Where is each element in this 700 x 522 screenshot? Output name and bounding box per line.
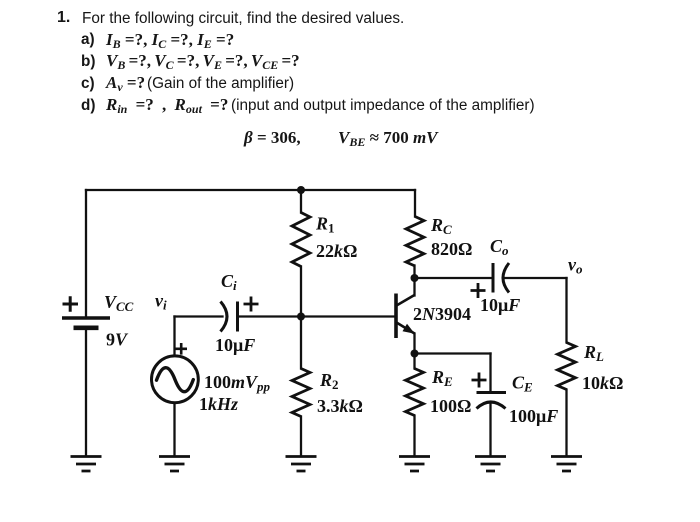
svg-text:100Ω: 100Ω bbox=[430, 396, 471, 416]
heading line 1 bbox=[57, 9, 70, 27]
svg-text:100μF: 100μF bbox=[509, 406, 558, 426]
resistor RE bbox=[406, 369, 424, 416]
wire vi corner down to source bbox=[173, 317, 175, 356]
wire RL bottom lead bbox=[565, 390, 567, 457]
wire R2 top lead bbox=[300, 317, 302, 369]
svg-text:RC: RC bbox=[430, 215, 452, 237]
ground battery bbox=[71, 457, 102, 472]
wire vo down lead bbox=[565, 278, 567, 343]
junction node R1-base bbox=[297, 313, 305, 321]
wire R1 top lead bbox=[300, 190, 302, 213]
ground RE bbox=[399, 457, 430, 472]
item a bbox=[81, 31, 95, 49]
svg-text:820Ω: 820Ω bbox=[431, 239, 472, 259]
ground R2 bbox=[286, 457, 317, 472]
wire Co to vo corner bbox=[505, 277, 567, 279]
beta line bbox=[244, 128, 301, 148]
wire battery top lead bbox=[85, 190, 87, 317]
svg-text:vi: vi bbox=[155, 291, 167, 313]
item b bbox=[81, 53, 95, 71]
svg-text:10μF: 10μF bbox=[215, 335, 255, 355]
wire battery bottom lead bbox=[85, 330, 87, 457]
svg-text:R2: R2 bbox=[319, 370, 339, 392]
junction node emitter bbox=[411, 350, 419, 358]
resistor R1 bbox=[292, 213, 310, 267]
svg-text:10kΩ: 10kΩ bbox=[582, 373, 623, 393]
wire collector node to Co bbox=[415, 277, 494, 279]
resistor RC bbox=[406, 217, 424, 267]
junction node collector bbox=[411, 274, 419, 282]
svg-text:RL: RL bbox=[583, 342, 604, 364]
wire RC top lead bbox=[414, 190, 416, 217]
svg-text:R1: R1 bbox=[315, 214, 335, 236]
source sine wave bbox=[157, 368, 194, 392]
transistor Q1 2N3904 bbox=[396, 294, 415, 339]
svg-text:Co: Co bbox=[490, 236, 509, 258]
wire emitter to CE bbox=[415, 352, 491, 354]
ground source bbox=[159, 457, 190, 472]
resistor RL bbox=[558, 343, 576, 390]
svg-text:vo: vo bbox=[568, 255, 583, 277]
source VI circle bbox=[152, 356, 199, 403]
svg-text:VCC: VCC bbox=[104, 292, 134, 314]
wire RE bottom lead bbox=[413, 416, 415, 457]
wire top rail bbox=[86, 189, 415, 191]
junction node top rail R1 bbox=[297, 186, 305, 194]
svg-text:RE: RE bbox=[431, 367, 453, 389]
item d bbox=[81, 97, 95, 115]
svg-text:10μF: 10μF bbox=[480, 295, 520, 315]
source plus sign bbox=[176, 343, 188, 355]
wire R1 bottom lead bbox=[300, 267, 302, 317]
wire RC bottom / collector lead bbox=[413, 266, 415, 296]
item c bbox=[81, 75, 95, 93]
battery plus sign bbox=[63, 296, 79, 311]
wire CE top lead bbox=[489, 354, 491, 393]
wire CE bottom lead bbox=[489, 402, 491, 456]
transistor emitter arrow bbox=[403, 324, 415, 334]
battery VCC bbox=[62, 318, 110, 328]
capacitor CE bbox=[477, 393, 507, 409]
svg-text:3.3kΩ: 3.3kΩ bbox=[317, 396, 363, 416]
capacitor Co bbox=[493, 263, 509, 293]
ground CE bbox=[475, 457, 506, 472]
wire vi to Ci bbox=[175, 315, 223, 317]
capacitor Co plus sign bbox=[471, 283, 486, 298]
svg-text:1kHz: 1kHz bbox=[199, 394, 238, 414]
ground RL bbox=[551, 457, 582, 472]
wire emitter lead bbox=[413, 334, 415, 369]
svg-text:2N3904: 2N3904 bbox=[413, 304, 471, 324]
svg-text:Ci: Ci bbox=[221, 271, 237, 293]
svg-text:CE: CE bbox=[512, 373, 533, 395]
svg-text:22kΩ: 22kΩ bbox=[316, 241, 357, 261]
capacitor CE plus sign bbox=[472, 373, 487, 388]
wire source bottom lead bbox=[173, 404, 175, 457]
capacitor Ci plus sign bbox=[244, 297, 259, 312]
wire base rail bbox=[238, 315, 395, 317]
wire R2 bottom lead bbox=[300, 417, 302, 457]
resistor R2 bbox=[292, 369, 310, 417]
svg-text:100mVpp: 100mVpp bbox=[204, 372, 271, 394]
capacitor Ci bbox=[221, 302, 238, 332]
svg-text:9V: 9V bbox=[106, 330, 129, 350]
